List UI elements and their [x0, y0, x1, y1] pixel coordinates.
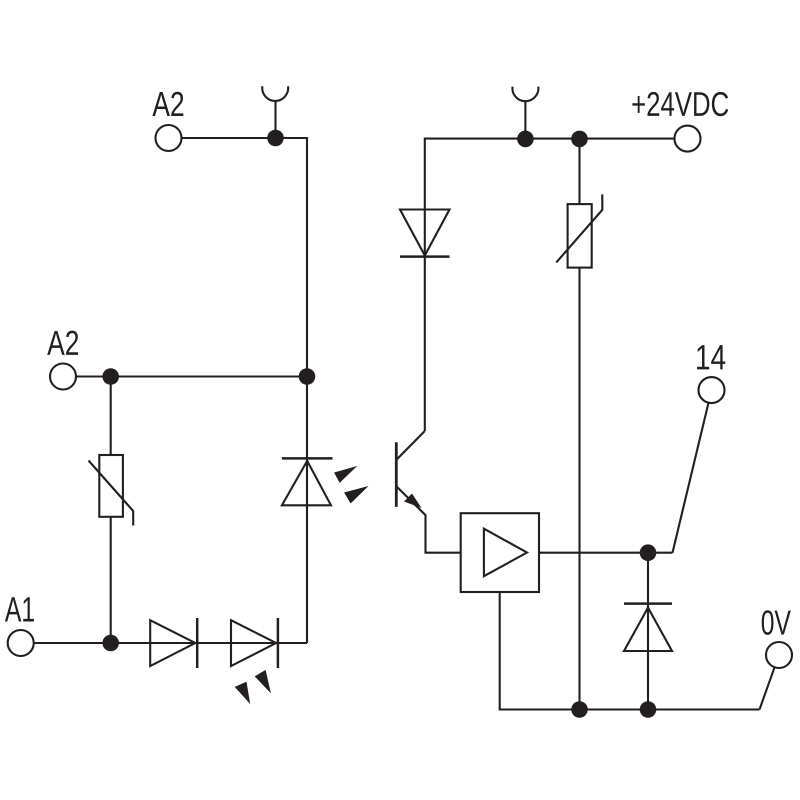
LED D2 triangle — [231, 620, 276, 666]
wire freewheel diode branch — [647, 553, 649, 710]
wire varistor right upper — [578, 139, 580, 204]
diode D4 cathode bar — [400, 255, 450, 258]
junction dot fork right — [517, 131, 534, 148]
junction dot A1 row — [102, 635, 119, 652]
terminal A1 — [8, 630, 34, 656]
junction dot varistor right top — [571, 131, 588, 148]
junction dot A2 mid left — [102, 368, 119, 385]
wire varistor branch upper — [110, 377, 112, 456]
fork terminal symbol left (arc) — [262, 86, 288, 101]
varistor RU2 body — [568, 204, 592, 268]
optocoupler LED D3 triangle — [282, 461, 331, 505]
wire amplifier ground and bottom rail — [500, 592, 760, 710]
freewheel diode D5 cathode bar — [624, 602, 672, 605]
wire A2 mid horizontal — [76, 375, 307, 377]
transistor Q1 emitter arrow — [404, 494, 422, 509]
transistor Q1 emitter lead — [397, 487, 461, 553]
wire A2 top to left branch corner and down — [182, 138, 308, 643]
junction dot A2 mid right — [299, 368, 316, 385]
optocoupler light arrow 1 — [334, 466, 357, 483]
fork terminal stem right — [524, 102, 526, 139]
wire amplifier output — [539, 552, 673, 554]
varistor RU2 diagonal with tail — [556, 194, 602, 262]
diode D4 triangle — [400, 210, 450, 256]
label A1 — [5, 597, 34, 621]
amplifier U1 triangle — [484, 529, 527, 577]
terminal A2 mid — [50, 364, 76, 390]
fork terminal stem left — [274, 102, 276, 139]
wire to terminal 0V — [760, 667, 775, 709]
terminal 14 — [699, 377, 725, 403]
LED D2 light arrow 1 — [235, 682, 251, 704]
label A2 top — [152, 92, 183, 116]
optocoupler LED D3 cathode bar — [282, 457, 333, 460]
junction dot bottom varistor — [571, 701, 588, 718]
varistor RU1 diagonal with tail — [89, 461, 134, 526]
optocoupler light arrow 2 — [344, 486, 368, 504]
diode D1 cathode bar — [196, 618, 199, 668]
label A2 mid — [47, 331, 78, 355]
wire to terminal 14 — [673, 403, 709, 553]
varistor RU1 body — [99, 455, 123, 517]
wire +24VDC rail — [425, 139, 675, 431]
terminal 0V — [766, 642, 792, 668]
amplifier U1 box — [461, 513, 539, 592]
fork terminal symbol right (arc) — [512, 87, 538, 102]
diode D1 triangle — [150, 620, 195, 666]
wire varistor branch lower — [110, 517, 112, 643]
wire A1 row horizontal — [34, 642, 307, 644]
junction dot at A2 top rail — [267, 130, 284, 147]
junction dot output — [640, 544, 657, 561]
LED D2 cathode bar — [277, 618, 280, 668]
LED D2 light arrow 2 — [255, 670, 271, 694]
freewheel diode D5 triangle — [624, 608, 672, 651]
terminal +24VDC — [675, 126, 701, 152]
label 14 — [697, 345, 725, 369]
label 0V — [762, 610, 791, 635]
junction dot bottom diode — [640, 701, 657, 718]
transistor Q1 collector lead — [397, 431, 425, 460]
wire varistor right lower — [578, 268, 580, 710]
transistor Q1 base bar — [395, 442, 398, 507]
label +24VDC — [632, 92, 728, 116]
terminal A2 top — [156, 125, 182, 151]
